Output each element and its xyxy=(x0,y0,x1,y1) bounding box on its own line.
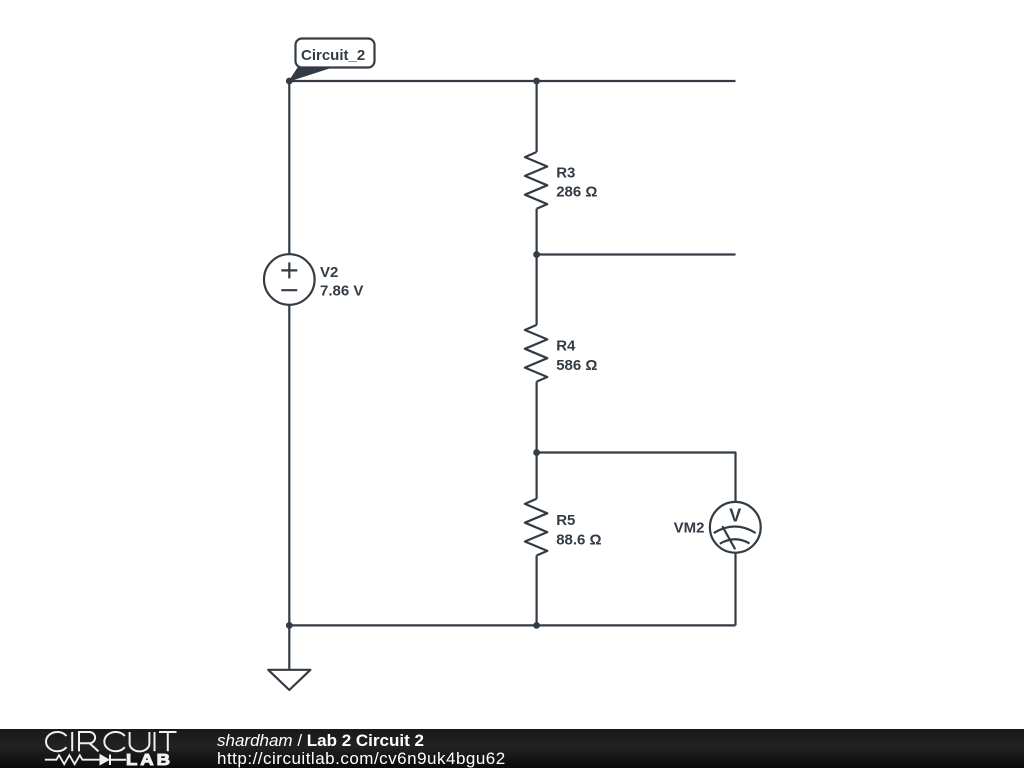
svg-text:R3: R3 xyxy=(556,165,575,182)
svg-text:shardham / Lab 2 Circuit 2: shardham / Lab 2 Circuit 2 xyxy=(217,731,424,750)
logo CIRCUIT letter U xyxy=(130,732,150,751)
node D R4/R5 junction dot xyxy=(533,449,540,456)
svg-text:88.6 Ω: 88.6 Ω xyxy=(556,532,601,549)
logo CIRCUIT letter I1 xyxy=(71,732,73,751)
wire R4 upper lead xyxy=(535,255,537,325)
logo diode triangle xyxy=(100,754,111,766)
wire voltmeter bottom to bottom-right corner xyxy=(734,553,736,626)
logo CIRCUIT letter I2 xyxy=(154,732,156,751)
svg-text:R5: R5 xyxy=(556,512,575,529)
voltmeter VM2 needle xyxy=(722,526,735,549)
resistor R5 xyxy=(525,499,547,556)
svg-text:V: V xyxy=(729,506,741,526)
logo diode bar and lead xyxy=(110,755,126,766)
wire R3 lower lead to node C xyxy=(535,209,537,255)
net label Circuit_2 pointer tail xyxy=(289,67,329,81)
wire node D to voltmeter top (right angle) xyxy=(537,453,736,503)
svg-text:286 Ω: 286 Ω xyxy=(556,184,597,201)
node B top R3 junction dot xyxy=(533,78,540,85)
wire middle horizontal (node C to right stub) xyxy=(537,253,736,255)
node E bottom-left junction dot xyxy=(286,622,293,629)
wire R4 lower lead to node D xyxy=(535,382,537,453)
voltmeter VM2 circle xyxy=(710,502,761,553)
wire left vertical lower (V2 bottom to bottom node) xyxy=(288,305,290,626)
voltage source V2 plus sign xyxy=(281,262,297,278)
resistor R3 xyxy=(525,152,547,209)
wire R5 upper lead xyxy=(535,453,537,499)
voltage source V2 circle xyxy=(264,254,315,305)
svg-text:7.86 V: 7.86 V xyxy=(320,283,363,300)
voltage source V2 minus sign xyxy=(281,289,297,291)
svg-text:Circuit_2: Circuit_2 xyxy=(301,47,365,64)
wire left vertical upper (node A to V2 top) xyxy=(288,81,290,255)
wire bottom horizontal (node E to bottom-right corner) xyxy=(289,624,735,626)
logo CIRCUIT letter R xyxy=(79,732,99,751)
svg-text:LAB: LAB xyxy=(126,752,173,768)
node A top-left junction dot xyxy=(286,78,293,85)
node F bottom R5 junction dot xyxy=(533,622,540,629)
wire R3 branch upper lead xyxy=(535,81,537,152)
resistor R4 xyxy=(525,325,547,382)
net label Circuit_2 box xyxy=(296,39,375,68)
ground stub wire xyxy=(288,625,290,669)
ground symbol triangle xyxy=(268,670,310,690)
svg-text:586 Ω: 586 Ω xyxy=(556,357,597,374)
voltmeter VM2 scale arc upper xyxy=(714,527,756,534)
footer bar xyxy=(0,729,1024,768)
node C middle junction dot xyxy=(533,251,540,258)
svg-text:http://circuitlab.com/cv6n9uk4: http://circuitlab.com/cv6n9uk4bgu62 xyxy=(217,749,506,768)
svg-text:V2: V2 xyxy=(320,264,338,281)
logo resistor squiggle xyxy=(45,755,100,764)
logo CIRCUIT letter C2 xyxy=(104,732,124,751)
logo CIRCUIT letter T xyxy=(159,732,177,751)
wire R5 lower lead to node F xyxy=(535,556,537,626)
voltmeter VM2 scale arc lower xyxy=(720,539,750,543)
wire top horizontal (node A to right stub) xyxy=(289,80,736,82)
svg-text:R4: R4 xyxy=(556,338,576,355)
svg-text:VM2: VM2 xyxy=(674,520,705,537)
logo CIRCUIT letter C1 xyxy=(45,732,177,765)
